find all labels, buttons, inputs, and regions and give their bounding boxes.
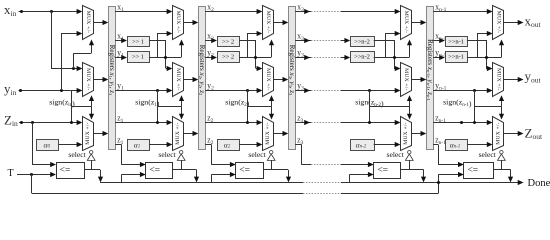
wire y_out xyxy=(503,79,519,81)
mux z stage1 xyxy=(83,117,94,151)
shifter box A 1 xyxy=(128,37,150,47)
wire sign tee 1 xyxy=(157,106,181,108)
wire 21 row x xyxy=(205,11,260,13)
wire z_in xyxy=(19,122,80,124)
wire x-MUX select 3 xyxy=(409,44,411,57)
svg-text:T: T xyxy=(8,168,14,179)
mux z 1 xyxy=(173,117,184,151)
mux x n-1 xyxy=(493,6,504,40)
wire alpha0 to z-MUX xyxy=(59,144,80,146)
register bank after 1 xyxy=(199,7,206,150)
svg-text:MUX +/-: MUX +/- xyxy=(403,122,409,144)
mux y stage1 xyxy=(83,63,94,97)
wire x-MUX select n-1 xyxy=(501,44,503,57)
comparator n-1 xyxy=(464,163,494,179)
wire alpha out 3 xyxy=(374,144,398,146)
mux y n-1 xyxy=(493,63,504,97)
svg-text:sign(z2): sign(z2) xyxy=(225,97,250,108)
mux x 3 xyxy=(401,6,412,40)
wire sign tee 3 xyxy=(369,106,409,108)
wire x_out xyxy=(503,22,519,24)
mux x stage1 xyxy=(83,6,94,40)
wire z to comparator n-1 xyxy=(433,144,438,146)
shifter box B 1 xyxy=(128,52,150,63)
wire chain riser to comp in2 n-1 xyxy=(438,174,440,182)
wire chain riser to comp in2 3 xyxy=(349,174,351,182)
wire z row n-1 xyxy=(433,122,490,124)
constant box alpha 2 xyxy=(218,140,240,151)
wire chain riser to comp in2 1 xyxy=(121,174,123,182)
node sign junction z 1 xyxy=(156,121,159,124)
node sign junction y n-1 xyxy=(473,89,476,92)
shifter A output crossover 3 xyxy=(374,40,394,42)
mux x 1 xyxy=(173,6,184,40)
svg-text:MUX +/-: MUX +/- xyxy=(85,68,91,90)
wire sign vertical 1 xyxy=(157,90,159,123)
wire y to shifter n-1 xyxy=(433,57,442,59)
wire sign vertical 3 xyxy=(369,90,371,123)
mux z 2 xyxy=(263,117,274,151)
wire z_out xyxy=(503,133,519,135)
wire comparator output 3 xyxy=(401,169,424,171)
wire alpha out n-1 xyxy=(467,144,490,146)
svg-text:select: select xyxy=(68,150,86,159)
node sign junction xyxy=(70,121,73,124)
node sign junction z 2 xyxy=(246,121,249,124)
svg-text:>> 2: >> 2 xyxy=(222,54,234,61)
mux y 3 xyxy=(401,63,412,97)
mux z n-1 xyxy=(493,117,504,151)
wire x to shifter 1 xyxy=(115,40,124,42)
node select tap 3 xyxy=(393,56,396,59)
node sign junction z n-1 xyxy=(473,121,476,124)
shifter B output crossover n-1 xyxy=(467,57,501,59)
svg-text:>> 1: >> 1 xyxy=(132,54,144,61)
wire x-MUX select 2 xyxy=(271,44,273,57)
node z_in to comparator xyxy=(31,121,34,124)
svg-text:Registers xn-1, yn-1, zn-1: Registers xn-1, yn-1, zn-1 xyxy=(426,39,434,101)
wire y row n-1 xyxy=(433,90,490,92)
wire comparator output 2 xyxy=(263,169,288,171)
wire y to shifter 3 xyxy=(295,57,311,59)
wire x_in drop to y-MUX xyxy=(51,11,53,68)
wire z row 1 xyxy=(115,122,170,124)
svg-text:select: select xyxy=(479,150,497,159)
shifter box B 2 xyxy=(218,52,240,63)
constant box alpha0 xyxy=(37,140,59,151)
wire T bus xyxy=(32,193,303,195)
svg-text:MUX +/-: MUX +/- xyxy=(265,68,271,90)
wire z row 3 xyxy=(295,122,311,124)
svg-text:Registers x1, y1, z1: Registers x1, y1, z1 xyxy=(108,45,116,96)
svg-text:MUX +/-: MUX +/- xyxy=(175,122,181,144)
select buffer 3 xyxy=(408,151,411,154)
svg-text:select: select xyxy=(248,150,266,159)
comparator stage1 xyxy=(57,163,85,179)
select buffer n-1 xyxy=(500,151,503,154)
wire z to comparator 1 xyxy=(115,144,121,146)
svg-text:MUX +/-: MUX +/- xyxy=(495,122,501,144)
wire x to shifter 2 xyxy=(205,40,214,42)
wire comparator output 1 xyxy=(173,169,197,171)
shifter B output crossover 2 xyxy=(239,57,271,59)
wire x to shifter n-1 xyxy=(433,40,442,42)
node sign junction y 3 xyxy=(368,89,371,92)
svg-text:<=: <= xyxy=(149,166,160,176)
svg-text:<=: <= xyxy=(239,166,250,176)
svg-text:MUX +/-: MUX +/- xyxy=(175,68,181,90)
comparator 2 xyxy=(236,163,264,179)
wire n-11 row x xyxy=(433,11,490,13)
svg-text:<=: <= xyxy=(467,166,478,176)
wire x to shifter 3 xyxy=(295,40,311,42)
node sign junction y 2 xyxy=(246,89,249,92)
svg-text:Registers x2, y2, z2: Registers x2, y2, z2 xyxy=(198,45,206,96)
svg-text:MUX +/-: MUX +/- xyxy=(403,68,409,90)
wire y row 2 xyxy=(205,90,260,92)
constant box alpha 1 xyxy=(128,140,150,151)
wire y row 1 xyxy=(115,90,170,92)
svg-text:MUX +/-: MUX +/- xyxy=(85,11,91,33)
node select tap 1 xyxy=(164,56,167,59)
svg-text:sign(z1): sign(z1) xyxy=(135,97,160,108)
svg-text:MUX +/-: MUX +/- xyxy=(175,11,181,33)
node x_in branch xyxy=(50,10,53,13)
shifter box A 2 xyxy=(218,37,240,47)
mux y 1 xyxy=(173,63,184,97)
shifter A output crossover n-1 xyxy=(467,40,486,42)
shifter box A n-1 xyxy=(446,37,468,47)
node sign junction y 1 xyxy=(156,89,159,92)
shifter B output crossover 1 xyxy=(149,57,181,59)
node sign junction z 3 xyxy=(368,121,371,124)
svg-text:sign(zin): sign(zin) xyxy=(49,98,75,109)
svg-text:MUX +/-: MUX +/- xyxy=(85,122,91,144)
wire alpha out 2 xyxy=(239,144,260,146)
node on final z row xyxy=(460,121,463,124)
constant box alpha 3 xyxy=(351,140,375,151)
mux x 2 xyxy=(263,6,274,40)
svg-text:MUX +/-: MUX +/- xyxy=(265,122,271,144)
svg-text:>>n-2: >>n-2 xyxy=(354,54,370,61)
wire select buffer input stage1 xyxy=(91,160,93,169)
wire z_in to comparator in1 xyxy=(32,123,34,165)
svg-text:MUX +/-: MUX +/- xyxy=(495,11,501,33)
wire 11 row x xyxy=(115,11,170,13)
wire sign vertical n-1 xyxy=(474,90,476,123)
svg-text:MUX +/-: MUX +/- xyxy=(403,11,409,33)
svg-text:<=: <= xyxy=(60,166,71,176)
wire done chain bus xyxy=(100,182,303,184)
wire MUX outputs to register1 xyxy=(93,22,106,24)
svg-text:select: select xyxy=(158,150,176,159)
wire sign vertical 2 xyxy=(247,90,249,123)
register bank 1 xyxy=(109,7,116,150)
svg-text:MUX +/-: MUX +/- xyxy=(265,11,271,33)
wire y to shifter 2 xyxy=(205,57,214,59)
wire chain riser to comp in2 2 xyxy=(211,174,213,182)
mux y 2 xyxy=(263,63,274,97)
shifter A output crossover 1 xyxy=(149,40,166,42)
wire comparator1 output xyxy=(84,169,100,171)
wire z to comparator 2 xyxy=(205,144,211,146)
svg-text:>>n-1: >>n-1 xyxy=(448,39,464,46)
svg-text:>> 2: >> 2 xyxy=(222,39,234,46)
wire x-MUX select stage1 xyxy=(72,67,75,70)
shifter B output crossover 3 xyxy=(374,57,410,59)
wire y_in xyxy=(19,90,80,92)
wire MUX outputs to register 1 xyxy=(183,22,196,24)
node T bus chain crossing xyxy=(437,181,440,184)
constant box alpha n-1 xyxy=(446,140,468,151)
wire T drop to T bus xyxy=(31,174,33,193)
wire x-MUX select 1 xyxy=(181,44,183,57)
wire MUX outputs to register 2 xyxy=(273,22,286,24)
wire z to comparator 3 xyxy=(295,144,302,146)
node y_in branch xyxy=(60,89,63,92)
register bank after 3 xyxy=(427,7,434,150)
svg-text:select: select xyxy=(387,150,405,159)
op-amp U1 select buffer stage1 xyxy=(90,151,93,154)
shifter box B 3 xyxy=(351,52,375,63)
svg-text:<=: <= xyxy=(377,166,388,176)
select buffer 2 xyxy=(270,151,273,154)
svg-text:>>n-2: >>n-2 xyxy=(354,39,370,46)
register bank after 2 xyxy=(289,7,296,150)
wire alpha out 1 xyxy=(149,144,170,146)
wire sign tee n-1 xyxy=(474,106,501,108)
wire MUX outputs to register 3 xyxy=(411,22,424,24)
wire T bus riser to final comparator xyxy=(438,174,440,193)
svg-text:>> 1: >> 1 xyxy=(132,39,144,46)
svg-text:>>n-1: >>n-1 xyxy=(448,54,464,61)
svg-text:MUX +/-: MUX +/- xyxy=(495,68,501,90)
wire x_in xyxy=(19,11,80,13)
wire sign tee stage1 xyxy=(72,106,92,108)
comparator 1 xyxy=(146,163,173,179)
shifter box A 3 xyxy=(351,37,375,47)
wire 31 row x xyxy=(295,11,311,13)
node select tap n-1 xyxy=(485,56,488,59)
svg-text:Done: Done xyxy=(528,178,550,189)
wire sign(z_in) vertical xyxy=(71,90,73,123)
wire comparator output n-1 xyxy=(493,169,511,171)
wire y row 3 xyxy=(295,90,311,92)
node T branch xyxy=(30,173,33,176)
comparator 3 xyxy=(374,163,401,179)
mux z 3 xyxy=(401,117,412,151)
svg-text:Registers x3, y3, z3: Registers x3, y3, z3 xyxy=(288,45,296,96)
shifter box B n-1 xyxy=(446,52,468,63)
select buffer 1 xyxy=(180,151,183,154)
wire y to shifter 1 xyxy=(115,57,124,59)
node select tap 2 xyxy=(254,56,257,59)
node on x_in wire xyxy=(20,10,23,13)
wire sign tee 2 xyxy=(247,106,271,108)
wire T xyxy=(17,174,54,176)
wire y_in riser to x-MUX xyxy=(61,33,63,90)
shifter A output crossover 2 xyxy=(239,40,256,42)
wire z row 2 xyxy=(205,122,260,124)
